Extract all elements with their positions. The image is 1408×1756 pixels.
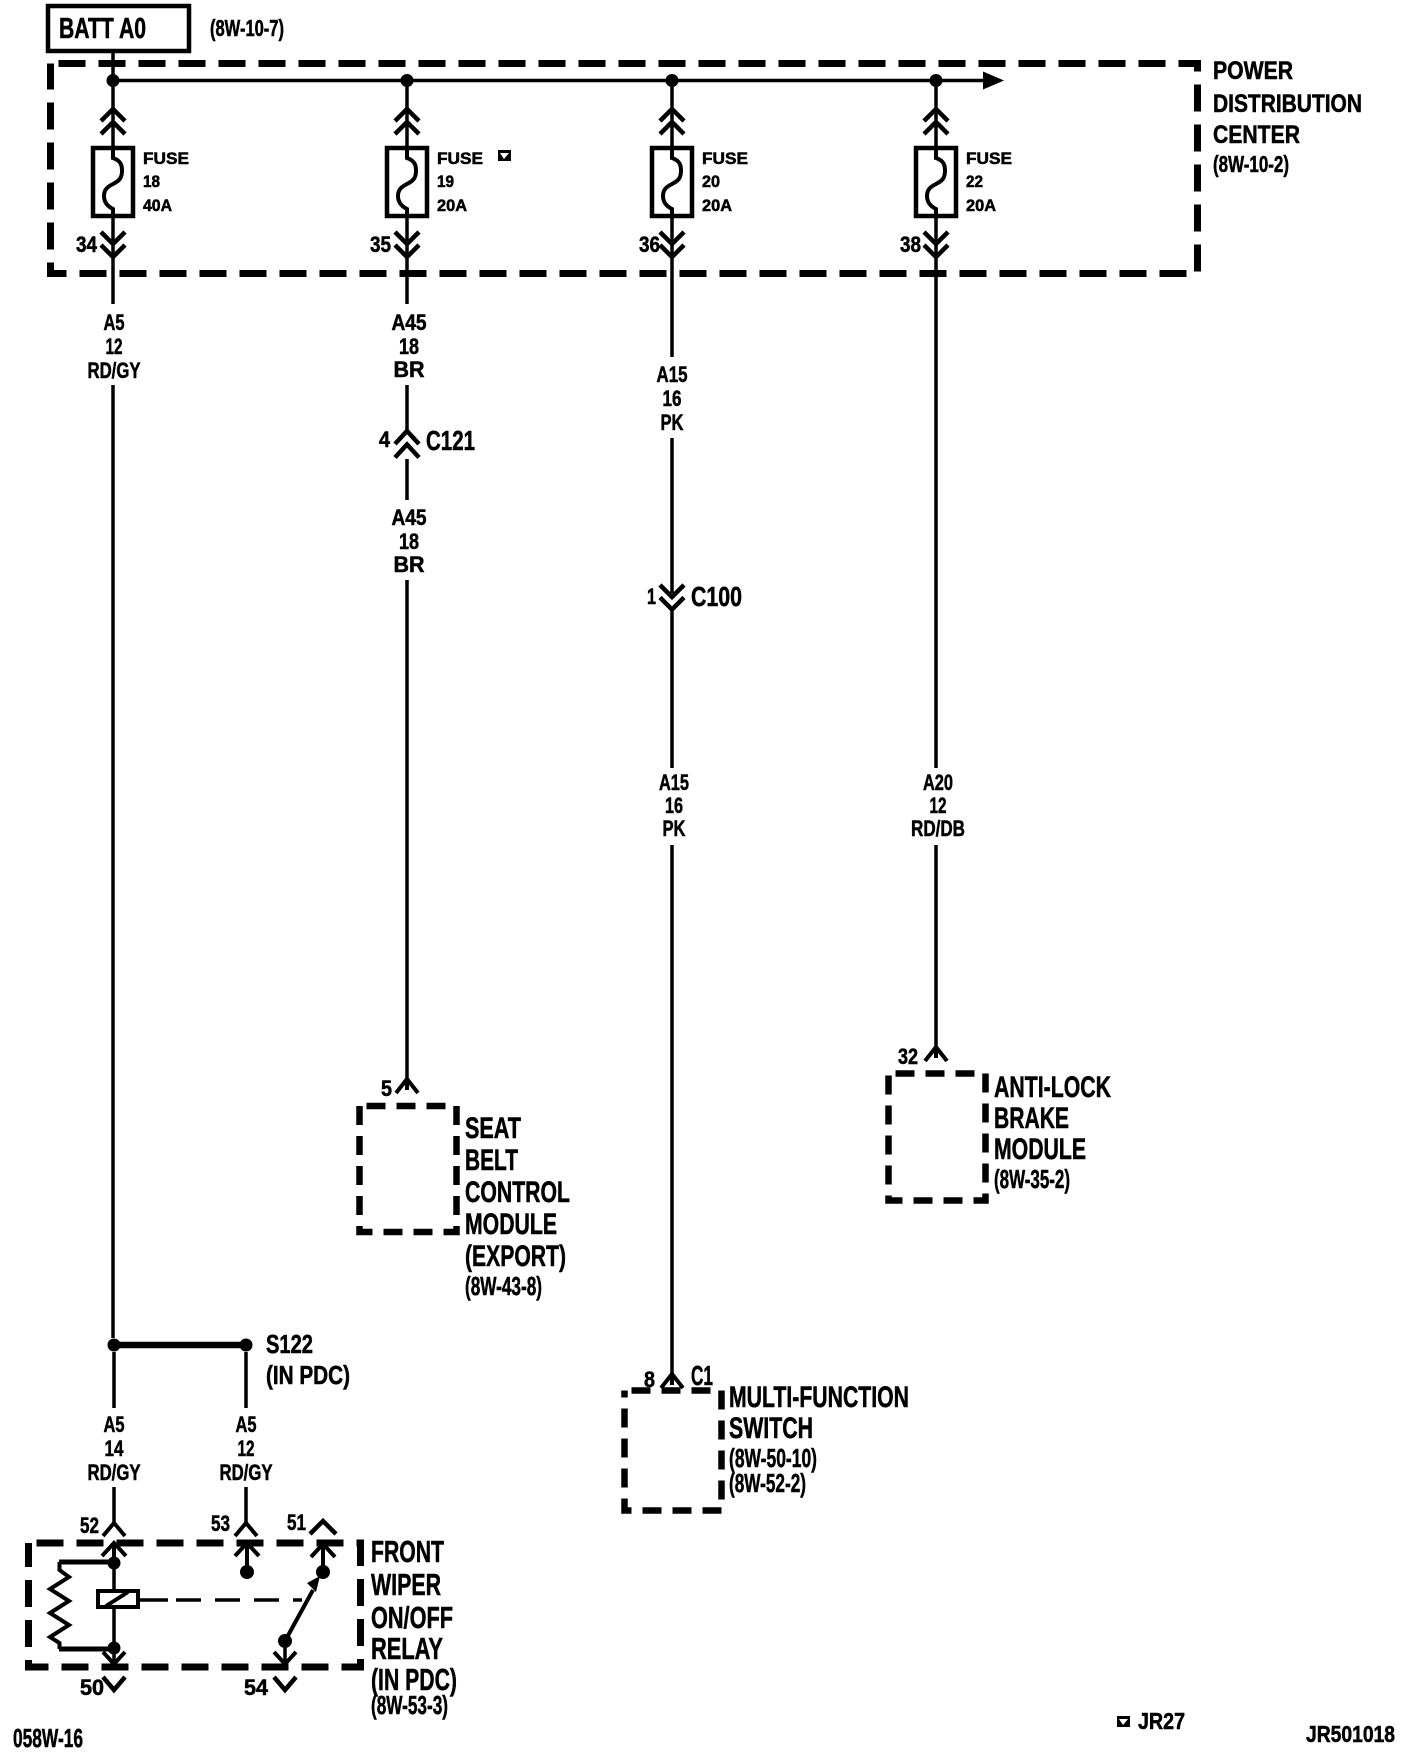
power distribution center dashed box [51,64,1198,274]
wire pin52 to coil junction [112,1546,116,1563]
connector arrows out of PDC col1 [101,232,125,257]
svg-text:(8W-43-8): (8W-43-8) [465,1271,542,1301]
pin 52 arrow above relay [103,1523,125,1536]
switch blade [285,1590,313,1641]
svg-text:JR501018: JR501018 [1306,1721,1395,1747]
pin 51 arrow above relay [310,1521,336,1534]
svg-text:53: 53 [211,1511,230,1536]
connector arrows out of PDC col2 [395,232,419,257]
svg-text:A20: A20 [923,770,953,795]
svg-text:32: 32 [898,1044,918,1069]
svg-text:34: 34 [76,232,98,257]
svg-text:FUSE: FUSE [702,149,748,168]
wire label A5 14 RD/GY [88,1412,141,1485]
JR27 flag icon [1117,1716,1130,1727]
svg-text:(8W-53-3): (8W-53-3) [371,1690,448,1720]
power distribution center label [1213,57,1362,177]
wire col2 fuse 19 to PDC edge [405,216,409,304]
wire bus BATT A0 feed [113,79,985,83]
wire label A45 18 BR col2 upper [392,310,427,382]
svg-text:14: 14 [105,1436,125,1461]
wire col4 fuse 22 to PDC edge [934,216,938,768]
svg-text:RD/DB: RD/DB [911,816,965,841]
splice S122 dot right [240,1339,253,1352]
multi-function switch box [625,1391,722,1511]
anti-lock brake module box [889,1074,986,1201]
wire col1 to S122 [111,385,115,1338]
svg-text:(IN PDC): (IN PDC) [266,1360,350,1390]
splice S122 label [266,1329,350,1390]
seat belt control module box [360,1106,457,1232]
svg-text:058W-16: 058W-16 [13,1723,83,1753]
connector C121 symbol [395,431,419,458]
seat belt control module label [465,1112,570,1301]
svg-text:52: 52 [80,1513,99,1538]
svg-text:38: 38 [900,232,921,257]
svg-text:54: 54 [244,1675,269,1700]
svg-text:A45: A45 [392,310,427,335]
fuse 18 [93,148,133,216]
label fuse 19 [437,149,483,215]
wire col3 fuse 20 to PDC edge [670,216,674,357]
svg-text:PK: PK [663,816,686,841]
svg-text:PK: PK [661,410,684,435]
wire label A5 12 RD/GY col1 [88,310,141,383]
svg-text:19: 19 [437,172,454,191]
svg-text:MODULE: MODULE [994,1133,1086,1166]
svg-text:DISTRIBUTION: DISTRIBUTION [1213,90,1362,118]
connector arrows into PDC col4 [924,109,948,134]
svg-text:5: 5 [381,1076,392,1101]
svg-text:BATT A0: BATT A0 [59,13,146,45]
junction dot switch top [316,1565,330,1579]
splice S122 link wire [114,1342,246,1349]
wire resistor bottom link [59,1647,114,1652]
pin arrow multi-function switch [661,1374,683,1388]
svg-text:(8W-52-2): (8W-52-2) [729,1468,806,1498]
switch blade arrowhead [307,1576,320,1592]
wire col2 to seat belt module [405,580,409,1079]
wire from BATT A0 to bus [111,53,115,80]
wire col1 to relay pin 52 [112,1487,116,1522]
svg-text:20A: 20A [966,196,996,215]
junction dot pin 53 stub [240,1565,254,1579]
bus arrowhead [983,72,1004,90]
svg-text:RD/GY: RD/GY [88,1460,141,1485]
pin arrow anti-lock brake module [925,1047,947,1061]
pin 54 arrow inside relay [274,1652,296,1664]
connector arrows into PDC col3 [660,109,684,134]
wire col4 bus to fuse 22 [934,80,938,148]
svg-text:40A: 40A [143,196,172,215]
svg-text:50: 50 [80,1675,104,1700]
pin 50 arrow below relay [103,1677,125,1690]
junction dot coil bottom [108,1642,121,1655]
multi-function switch label [729,1381,909,1498]
pin 53 wall connector [235,1543,259,1566]
wire label A15 16 PK col3 upper [657,362,688,435]
svg-text:RELAY: RELAY [371,1631,443,1666]
junction dot col3 [666,74,679,87]
wire col1 S122 down [112,1352,116,1408]
front wiper relay label [371,1534,457,1720]
svg-text:20A: 20A [437,196,467,215]
svg-text:4: 4 [379,427,391,452]
junction dot switch bottom [278,1634,292,1648]
svg-text:SWITCH: SWITCH [729,1412,813,1445]
wire label A15 16 PK col3 lower [659,770,689,841]
fuse 19 [387,148,427,216]
svg-text:MULTI-FUNCTION: MULTI-FUNCTION [729,1381,909,1414]
splice S122 dot left [108,1339,121,1352]
node BATT A0 box [48,6,189,51]
svg-text:POWER: POWER [1213,57,1293,85]
svg-text:C100: C100 [691,581,742,612]
connector arrows into PDC col1 [101,109,125,134]
pin 51 wall connector [311,1544,335,1566]
wire col3 below C100 [670,608,674,768]
wire col3 bus to fuse 20 [670,80,674,148]
svg-text:(8W-10-7): (8W-10-7) [210,15,284,41]
svg-text:51: 51 [287,1510,306,1535]
anti-lock brake module label [994,1071,1111,1194]
pin 50 arrow inside relay [103,1652,125,1664]
svg-text:FRONT: FRONT [371,1534,444,1569]
junction dot coil top [108,1557,121,1570]
svg-text:16: 16 [663,386,682,411]
junction dot col2 [401,74,414,87]
wire label A45 18 BR col2 lower [392,505,427,577]
resistor relay coil shunt [50,1562,69,1649]
svg-text:12: 12 [238,1436,255,1461]
relay coil [98,1591,138,1607]
pin 52 wall connector [102,1543,126,1557]
wire coil vertical [112,1563,116,1648]
svg-text:18: 18 [399,334,419,359]
wire right branch to relay pin 53 [244,1487,248,1522]
connector arrows out of PDC col4 [924,232,948,257]
junction dot col4 [930,74,943,87]
svg-text:18: 18 [399,529,419,554]
svg-text:RD/GY: RD/GY [88,358,141,383]
svg-text:A5: A5 [104,1412,125,1437]
svg-text:A5: A5 [104,310,125,335]
connector C100 symbol [660,585,684,610]
wire col4 to anti-lock brake module [934,845,938,1047]
label fuse 22 [966,149,1012,215]
wire label A20 12 RD/DB col4 [911,770,965,841]
svg-text:MODULE: MODULE [465,1208,557,1241]
fuse 22 [916,148,956,216]
svg-text:A15: A15 [659,770,689,795]
label fuse 20 [702,149,748,215]
svg-text:20: 20 [702,172,720,191]
svg-text:12: 12 [930,793,947,818]
wire resistor top link [59,1560,114,1565]
svg-text:SEAT: SEAT [465,1112,521,1145]
svg-text:BR: BR [394,552,425,577]
svg-text:(8W-10-2): (8W-10-2) [1213,151,1289,177]
svg-text:RD/GY: RD/GY [220,1460,273,1485]
svg-text:20A: 20A [702,196,732,215]
svg-text:CENTER: CENTER [1213,121,1300,149]
svg-text:FUSE: FUSE [966,149,1012,168]
wire col1 fuse 18 to PDC edge [111,216,115,304]
front wiper relay dashed box [29,1543,361,1667]
svg-text:C1: C1 [691,1360,713,1391]
wire label A5 12 RD/GY right branch [220,1412,273,1485]
svg-text:CONTROL: CONTROL [465,1176,570,1209]
wire col3 to C100 [670,438,674,593]
wire col2 below C121 [405,459,409,500]
svg-text:A15: A15 [657,362,688,387]
svg-text:ANTI-LOCK: ANTI-LOCK [994,1071,1111,1104]
svg-text:BELT: BELT [465,1144,518,1177]
connector arrows out of PDC col3 [660,232,684,257]
wire col1 bus to fuse 18 [111,80,115,148]
svg-text:22: 22 [966,172,983,191]
junction dot col1 [107,74,120,87]
svg-text:16: 16 [665,793,683,818]
wire col3 to multi-function switch [670,845,674,1374]
fuse 20 [652,148,692,216]
svg-text:ON/OFF: ON/OFF [371,1600,453,1635]
relay control dashed line [138,1598,168,1602]
svg-text:JR27: JR27 [1138,1708,1185,1734]
svg-text:BR: BR [394,357,425,382]
svg-text:(EXPORT): (EXPORT) [465,1240,566,1273]
svg-text:A5: A5 [236,1412,257,1437]
svg-text:12: 12 [106,334,123,359]
wire col2 bus to fuse 19 [405,80,409,148]
svg-text:BRAKE: BRAKE [994,1102,1069,1135]
pin 54 arrow below relay [274,1677,296,1690]
svg-text:(8W-35-2): (8W-35-2) [994,1164,1070,1194]
svg-text:FUSE: FUSE [437,149,483,168]
connector arrows into PDC col2 [395,109,419,134]
wire col2 to C121 [405,385,409,430]
svg-text:WIPER: WIPER [371,1567,441,1602]
svg-text:S122: S122 [266,1329,313,1359]
wire coil bottom to wall [112,1648,116,1665]
svg-text:C121: C121 [426,425,475,456]
svg-text:18: 18 [143,172,160,191]
svg-text:35: 35 [370,232,391,257]
svg-text:36: 36 [639,232,660,257]
pin arrow seat belt module [396,1079,418,1093]
svg-text:A45: A45 [392,505,427,530]
wire switch to pin 54 wall [283,1647,287,1663]
pin 53 arrow above relay [235,1523,257,1536]
svg-text:1: 1 [647,584,656,609]
label fuse 18 [143,149,189,215]
fuse 19 flag icon [498,150,511,161]
wire S122 right branch down [244,1352,248,1408]
svg-text:FUSE: FUSE [143,149,189,168]
